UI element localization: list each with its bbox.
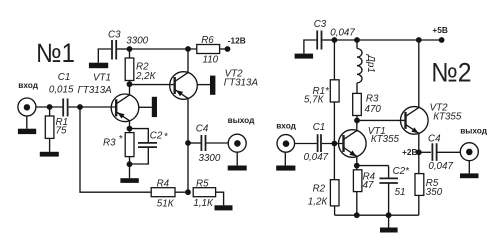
svg-text:ГТ313А: ГТ313А	[224, 77, 259, 88]
svg-text:350: 350	[426, 187, 443, 198]
transistor VT2 (circuit 1)	[170, 49, 198, 192]
svg-text:51К: 51К	[157, 198, 175, 209]
svg-text:C1: C1	[313, 122, 326, 133]
ground under R1	[40, 152, 59, 157]
node C2 bottom	[386, 212, 392, 218]
svg-text:Др1: Др1	[365, 54, 376, 73]
ground after R5	[215, 205, 233, 210]
label R1 value 75	[56, 117, 69, 137]
svg-text:VT1: VT1	[93, 73, 111, 84]
inductor Др1	[357, 40, 362, 93]
svg-text:0,047: 0,047	[330, 28, 355, 39]
wire C1 to VT1 base	[69, 106, 117, 108]
svg-text:C1: C1	[58, 72, 71, 83]
input jack X1 (circuit 2)	[277, 135, 295, 153]
ground under C3 left	[89, 63, 108, 68]
terminal -12В	[225, 46, 231, 52]
resistor R4 (circuit 2)	[353, 166, 362, 216]
wire bottom rail circuit 2	[335, 214, 419, 216]
svg-text:C3: C3	[108, 29, 121, 40]
resistor R4	[151, 188, 188, 197]
ground bottom rail (circuit 2)	[380, 215, 398, 232]
svg-text:выход: выход	[460, 125, 488, 135]
label R5 value 350 (circuit 2)	[426, 178, 443, 198]
resistor R1* (circuit 2)	[330, 40, 339, 144]
node VT1 emitter	[127, 126, 133, 132]
svg-text:вход: вход	[276, 120, 296, 130]
label R2 value 1,2К (circuit 2)	[308, 183, 329, 207]
resistor R3 (circuit 2)	[353, 93, 362, 120]
ground under input jack 2	[276, 152, 295, 170]
svg-text:1,1К: 1,1К	[193, 198, 214, 209]
node VT2 collector on rail	[185, 46, 191, 52]
svg-text:0,047: 0,047	[428, 161, 453, 172]
ground under C3 left (circuit 2)	[295, 54, 314, 59]
label C3 value 0,047 (circuit 2)	[314, 19, 356, 39]
svg-text:C2*: C2*	[393, 166, 411, 177]
wire top rail circuit 1	[130, 48, 197, 50]
capacitor C2* (circuit 2)	[379, 166, 398, 216]
svg-text:R5: R5	[196, 178, 209, 189]
node VT1 base (circuit 2)	[332, 141, 338, 147]
svg-text:+2В: +2В	[402, 147, 417, 157]
capacitor C4 (circuit 2)	[419, 143, 461, 161]
svg-text:110: 110	[203, 55, 219, 66]
node C3/R1 on rail	[332, 37, 338, 43]
capacitor C4 (circuit 1)	[188, 135, 228, 151]
wire R3 node to VT2 base	[357, 119, 406, 121]
ground under input jack 1	[18, 116, 36, 134]
svg-text:3300: 3300	[199, 153, 221, 164]
svg-text:0,015: 0,015	[49, 84, 74, 95]
resistor R6	[197, 45, 228, 54]
transistor VT1 (circuit 1)	[111, 85, 139, 129]
resistor R3	[125, 129, 134, 179]
svg-text:470: 470	[365, 104, 382, 115]
svg-text:0,047: 0,047	[304, 152, 329, 163]
svg-text:1,2К: 1,2К	[308, 196, 329, 207]
label C2	[150, 130, 169, 142]
label VT2 КТ355 (circuit 2)	[430, 102, 462, 122]
node VT1 emitter (circuit 2)	[354, 163, 360, 169]
label C4 value 3300	[196, 124, 221, 165]
ground under output jack 2	[460, 161, 479, 179]
output jack X2 (circuit 1)	[228, 134, 246, 152]
svg-text:C3: C3	[314, 19, 327, 30]
svg-text:C4: C4	[196, 124, 209, 135]
ground under output jack 1	[228, 152, 247, 171]
capacitor C2 (circuit 1)	[130, 129, 158, 164]
svg-text:R4: R4	[157, 178, 170, 189]
node R1 tap	[47, 104, 53, 110]
svg-text:№2: №2	[431, 59, 471, 88]
node R3/VT1 collector/VT2 base	[354, 118, 360, 124]
transistor VT1 (circuit 2)	[339, 120, 367, 165]
capacitor C3 (circuit 2)	[304, 31, 335, 54]
svg-text:47: 47	[363, 180, 374, 191]
svg-text:75: 75	[56, 126, 67, 137]
svg-text:КТ355: КТ355	[433, 111, 462, 122]
svg-text:C4: C4	[428, 134, 441, 145]
label R3	[103, 134, 124, 149]
svg-text:R6: R6	[201, 35, 214, 46]
svg-text:№1: №1	[36, 39, 75, 68]
wire feedback to R4	[80, 107, 151, 192]
input jack X1 (circuit 1)	[18, 98, 36, 116]
resistor R5	[193, 188, 223, 206]
label C2* value 51	[393, 166, 411, 198]
wire emitter to C2*	[357, 165, 389, 167]
label R3 value 470 (circuit 2)	[365, 94, 382, 116]
svg-text:3300: 3300	[126, 35, 148, 46]
label C3 value 3300	[108, 29, 149, 46]
node VT2 collector on rail	[416, 37, 422, 43]
svg-text:+5В: +5В	[432, 25, 447, 35]
node C4 tap	[185, 140, 191, 146]
terminal +5В	[439, 37, 445, 43]
label VT2 ГТ313А	[224, 69, 259, 89]
node Др1 on rail	[354, 37, 360, 43]
label R5 value 1,1К	[193, 178, 214, 209]
svg-text:выход: выход	[228, 115, 256, 125]
node R4/R5/VT2 emitter	[185, 189, 191, 195]
label R2 value 2,2К	[135, 62, 157, 82]
node R3/C2 bottom	[127, 161, 133, 167]
capacitor C3 (circuit 1)	[98, 40, 129, 63]
label C1 value 0,015	[49, 72, 74, 95]
ground under R3	[120, 178, 138, 183]
node VT2 emitter +2В	[416, 149, 422, 155]
resistor R2 (circuit 2)	[330, 144, 339, 216]
resistor R5 (circuit 2)	[415, 152, 424, 215]
svg-text:R3: R3	[103, 138, 116, 149]
wire input jack 2 to C1	[295, 143, 317, 145]
resistor R1	[45, 107, 54, 152]
label R4 value 51К	[157, 178, 175, 209]
svg-text:R3: R3	[366, 94, 379, 105]
svg-text:2,2К: 2,2К	[135, 71, 157, 82]
node R4 bottom	[354, 212, 360, 218]
svg-text:51: 51	[395, 187, 406, 198]
label R1* value 5,7К	[304, 86, 330, 105]
label VT1 ГТ313А	[78, 73, 113, 97]
node C3/R2 on rail	[127, 46, 133, 52]
node feedback tap	[77, 104, 83, 110]
label R4 value 47 (circuit 2)	[363, 172, 376, 192]
svg-text:КТ355: КТ355	[371, 134, 400, 145]
svg-text:C2: C2	[150, 130, 163, 141]
capacitor C1 (circuit 2)	[318, 134, 344, 152]
resistor R2	[125, 49, 134, 85]
node VT1 collector	[127, 81, 133, 87]
svg-text:вход: вход	[18, 80, 38, 90]
transistor VT2 (circuit 2)	[401, 40, 429, 152]
label C4 value 0,047 (circuit 2)	[428, 134, 453, 173]
svg-text:R2: R2	[313, 183, 326, 194]
wire top rail circuit 2	[334, 39, 441, 41]
capacitor C1	[63, 99, 67, 117]
label R6 value 110	[201, 35, 218, 66]
ground bar VT2 case lead	[197, 76, 215, 95]
wire input jack to C1	[36, 106, 63, 108]
wire VT1 collector to VT2 base	[130, 84, 175, 86]
svg-text:ГТ313А: ГТ313А	[78, 85, 113, 96]
svg-text:-12В: -12В	[228, 35, 246, 45]
label VT1 КТ355 (circuit 2)	[368, 126, 400, 145]
ground bar VT1 case lead	[139, 97, 157, 117]
svg-text:5,7К: 5,7К	[304, 94, 325, 105]
output jack X2 (circuit 2)	[460, 143, 478, 161]
label C1 value 0,047 (circuit 2)	[304, 122, 329, 163]
